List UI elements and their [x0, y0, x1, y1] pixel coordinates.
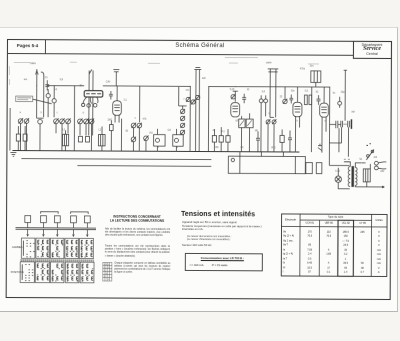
socket table r1c3 border — [50, 238, 64, 258]
transformer tap labels — [344, 159, 350, 162]
tube V3 envelope — [293, 102, 302, 116]
striped band ticks — [21, 259, 93, 262]
table header lines — [281, 220, 387, 227]
loop contact e2 — [272, 120, 276, 124]
consumption line 1 — [185, 256, 260, 260]
capacitor C4 — [109, 91, 113, 99]
junction dot 62.5,150.5 — [61, 150, 62, 151]
trimmer row b1 — [54, 119, 59, 124]
wire transformer top leads — [344, 162, 361, 168]
trimmer o4 — [144, 136, 149, 141]
capacitor C15 — [289, 94, 293, 103]
trimmer o1 — [131, 123, 136, 128]
wire V1 bottom — [111, 119, 121, 152]
resistor R13 — [304, 95, 307, 105]
chassis ground bus — [12, 151, 299, 153]
junction dot 312,85.4 — [311, 86, 312, 87]
note label box — [16, 96, 33, 101]
antenna earth lead — [41, 72, 44, 117]
wire power links — [355, 163, 384, 188]
coil L1 box — [62, 134, 68, 145]
mains switch contact 1 — [367, 155, 370, 158]
osc coil T2 slug — [174, 138, 178, 142]
tube outline box 4 — [71, 216, 77, 223]
capacitor C12 — [256, 131, 260, 152]
resistor R2 — [85, 136, 89, 142]
socket table r1c5 border — [79, 238, 93, 258]
trimmer row c3 — [89, 119, 94, 124]
tube V1 envelope — [113, 101, 122, 116]
dial lamp symbol — [318, 144, 322, 151]
trimmer IF in — [231, 95, 235, 99]
junction dot 235.6,85.4 — [235, 86, 236, 87]
junction dot 140,85.4 — [139, 86, 140, 87]
socket table r2c3 border — [50, 262, 64, 283]
detector diode pair d1 — [259, 99, 263, 103]
output transformer primary bars — [341, 121, 343, 128]
scan noise dashes top — [9, 56, 319, 86]
padder chain arrows — [181, 109, 185, 135]
osc coil T2 box — [173, 135, 183, 147]
socket table r1c1 border — [21, 238, 35, 258]
title cell divider pages — [44, 40, 46, 54]
loop antenna wire 1 — [269, 69, 271, 117]
trimmer under antenna — [38, 119, 43, 124]
trimmer row b2 — [60, 119, 65, 124]
socket table r1c3 codes — [52, 240, 63, 257]
instructions paragraph 3 — [114, 263, 170, 275]
wire loop drops — [268, 117, 274, 152]
socket table r2c2 border — [35, 262, 49, 283]
trimmer o3 — [131, 137, 136, 142]
table col3 values — [338, 230, 354, 276]
key table dots — [104, 264, 111, 279]
junction dot 270.4,85.4 — [270, 86, 271, 87]
wire output leads — [329, 70, 348, 157]
table header unites — [372, 218, 387, 221]
bus line B+ lower 1 — [21, 158, 211, 161]
padder P3 — [196, 95, 200, 99]
mains transformer core — [351, 166, 354, 187]
junction dot 92,150.5 — [91, 150, 92, 151]
instructions paragraph 1 — [105, 227, 170, 237]
HF rail wire — [209, 85, 330, 88]
socket table r2c4 border — [65, 262, 79, 283]
tube V4 anode lead — [323, 87, 325, 103]
table header type du tube — [300, 215, 371, 218]
socket table r2c4 codes — [67, 264, 78, 281]
wire det box drop — [311, 82, 315, 152]
wire AF lead — [284, 87, 286, 99]
table header electrode — [281, 218, 300, 221]
trimmer row c1 — [78, 119, 83, 124]
tube V4 grid dashes — [321, 107, 327, 113]
under-chassis tap rect 2 — [316, 163, 322, 174]
socket table r1c5 codes — [81, 240, 93, 257]
tube V2 anode lead — [233, 91, 238, 102]
outer frame — [6, 40, 391, 300]
socket table r2c1 codes — [22, 264, 33, 280]
department service box — [353, 41, 391, 58]
wire pot drop — [281, 129, 283, 151]
note box text lines — [17, 98, 31, 100]
mains switch arm — [366, 149, 374, 160]
coil L2 box — [98, 134, 105, 145]
mains switch contact 2 — [371, 150, 374, 153]
wire lamp leads — [338, 168, 350, 189]
tube V1 grid dashes — [114, 105, 120, 111]
junction dot 296,150.5 — [295, 151, 296, 152]
AM rod twin wire 1 — [88, 70, 90, 135]
key table border — [103, 263, 112, 282]
trimmer AF arrow — [283, 99, 287, 104]
cap C osc twin 2 — [198, 70, 200, 152]
resistor R7 — [226, 136, 230, 143]
det transformer inner — [314, 71, 317, 83]
table row labels — [283, 230, 294, 276]
padder chain c1 — [180, 109, 184, 113]
table units values — [371, 230, 386, 276]
wire chain stem — [182, 86, 190, 151]
trimmer row a2 — [24, 119, 29, 124]
trimmer arrows a — [19, 118, 30, 124]
instructions paragraph 2 — [105, 244, 170, 258]
socket bracket 1 — [41, 212, 59, 214]
under-chassis tap rect — [306, 163, 313, 174]
pilot lamp cross — [336, 177, 340, 181]
socket table r2c1 border — [20, 262, 34, 283]
tube V1 anode lead — [116, 86, 118, 101]
IF transformer arrow A — [240, 120, 244, 126]
under-chassis box — [228, 156, 305, 174]
tube V4 envelope — [320, 103, 329, 117]
resistor R5 — [212, 136, 216, 143]
table col1 values — [300, 230, 320, 276]
wire left vertical — [9, 108, 11, 150]
switch contact d2 — [87, 104, 91, 108]
tube V3 anode lead — [296, 87, 298, 102]
cap osc top bar — [194, 67, 201, 69]
padder chain c4 — [180, 130, 184, 134]
socket table r2c2 codes — [37, 264, 49, 280]
instructions title — [102, 214, 172, 223]
trimmer row c2 — [84, 119, 89, 124]
switch contact d1 — [82, 103, 85, 106]
osc coil T1 box — [154, 135, 165, 147]
wire IF drops — [241, 113, 249, 152]
capacitor C ant — [45, 80, 49, 90]
ground symbol left — [10, 153, 16, 157]
capacitor C18 — [330, 121, 341, 129]
tube outline box 1 — [25, 216, 31, 223]
junction dot 111.8,150.5 — [111, 150, 112, 151]
detector diode pair d2 — [264, 99, 268, 103]
padder P2 — [191, 100, 195, 104]
trimmer arrows o — [131, 123, 148, 142]
tensions line 2 — [182, 225, 262, 232]
antenna arrowhead — [35, 70, 38, 75]
loop contact arrows — [266, 119, 276, 124]
voltage selector dots — [366, 144, 371, 146]
grid rail wire — [103, 85, 190, 87]
resistor R3 — [110, 125, 114, 131]
wire drops under chassis — [240, 152, 296, 174]
coil L1 hatch — [64, 134, 66, 145]
junction dot 282.6,150.5 — [281, 151, 282, 152]
junction dot 190.6,150.5 — [189, 151, 190, 152]
wire trimmer leads left — [48, 86, 54, 118]
wire x330 drop — [328, 87, 330, 152]
loop antenna wire 2 — [275, 69, 277, 117]
antenna mast — [36, 69, 38, 118]
junction dot 190.6,85.4 — [190, 86, 191, 87]
tensions line 1 — [182, 220, 262, 224]
junction dot 158,150.5 — [157, 151, 158, 152]
padder chain c3 — [180, 123, 184, 127]
tube V4 cathode drop — [322, 117, 326, 152]
ballast resistor box — [363, 169, 370, 182]
tensions title — [181, 210, 255, 217]
tensions line secteur — [182, 243, 212, 247]
trimmer arrows b — [54, 118, 71, 124]
output transformer secondary bars — [348, 121, 350, 128]
junction dot 297.8,85.4 — [297, 86, 298, 87]
tube outline box 3 — [54, 216, 60, 223]
switch wafer curves — [83, 97, 98, 104]
wire res drops m — [214, 127, 228, 152]
table col4 values — [353, 230, 371, 276]
capacitor C17 — [316, 95, 320, 105]
socket table r1c1 codes — [23, 241, 34, 257]
loop tap bar — [268, 71, 277, 73]
junction dot 74.8,85.4 — [74, 85, 75, 86]
wire R0 drops — [18, 126, 25, 151]
tube V1 cathode leads — [115, 115, 119, 123]
bus arrows — [28, 229, 88, 236]
socket table r1c2 codes — [37, 240, 48, 257]
loop antenna top bar — [268, 68, 279, 70]
capacitor C10 — [242, 94, 246, 104]
tube V3 cathode drop — [295, 117, 299, 153]
IF transformer box B — [246, 119, 253, 128]
IF transformer arrow B — [247, 120, 251, 126]
rod arrow — [89, 69, 92, 74]
connection bus lower line — [16, 228, 96, 230]
resistor R0a — [16, 134, 20, 141]
speaker bracket — [350, 119, 352, 129]
resistor R14 — [309, 95, 312, 105]
trimmer row a1 — [18, 119, 23, 124]
key table grid — [103, 263, 112, 282]
junction dot 242,150.5 — [241, 151, 242, 152]
trimmer o2 — [137, 123, 142, 128]
resistor R0b — [23, 134, 27, 141]
trimmer CV1 — [46, 94, 50, 98]
mains transformer secondary winding — [355, 167, 357, 185]
tube V2 grid dashes — [232, 106, 238, 112]
striped header band row2 — [20, 259, 94, 262]
socket table r1c4 border — [65, 238, 79, 258]
IF transformer box A — [239, 119, 245, 128]
trimmer row b3 — [66, 119, 71, 124]
junction dot 177,150.5 — [176, 151, 177, 152]
socket stems — [28, 223, 88, 228]
trimmer IF arrow — [231, 94, 235, 99]
table column lines — [300, 214, 372, 277]
wire drops row bc — [56, 124, 92, 151]
bus line B+ lower 2 — [77, 165, 211, 168]
tube V2 envelope — [231, 103, 240, 117]
mains plug pin 1 — [374, 161, 378, 165]
loop contact e1 — [266, 120, 270, 124]
wire coil drops — [65, 126, 102, 151]
tensions parenthetical — [187, 235, 261, 242]
wire det leads — [261, 95, 266, 152]
leader wire to switch — [33, 99, 52, 104]
junction dot 330,85.4 — [329, 87, 330, 88]
junction dot 209,85.4 — [208, 86, 209, 87]
padder chain c2 — [180, 116, 184, 120]
mains transformer primary winding — [348, 167, 350, 187]
wire drops left row — [20, 118, 43, 151]
output transformer link dash — [343, 123, 347, 125]
padder P1 — [186, 97, 190, 101]
gammes label row2 — [11, 271, 24, 274]
capacitor C14 — [288, 130, 292, 152]
table col2 values — [319, 230, 338, 276]
osc coil T1 slug — [155, 138, 159, 142]
connection bus upper line — [16, 227, 96, 229]
wire x140 drop — [139, 86, 141, 122]
tube V3 grid dashes — [294, 107, 300, 113]
trimmer arrows c — [78, 118, 94, 124]
pilot lamp L1 — [335, 176, 341, 182]
page number label — [10, 43, 45, 48]
socket table r2c5 border — [80, 262, 94, 283]
wire osc drops — [157, 129, 176, 152]
band switch box S1 — [84, 91, 103, 97]
osc section box — [178, 86, 208, 151]
socket table r2c3 codes — [52, 264, 63, 281]
coupling choke circle — [338, 101, 342, 105]
bus arrowheads — [27, 234, 89, 237]
wire rail left — [46, 86, 84, 151]
mains plug pin 2 — [374, 166, 378, 170]
coil L2 hatch — [101, 134, 103, 145]
tube outline box 2 — [41, 216, 47, 223]
tube outline box 5 — [84, 216, 90, 223]
switch contact d3 — [93, 103, 97, 107]
ballast inner lines — [366, 169, 368, 182]
resistor R6 — [219, 136, 223, 143]
padder arrows — [186, 95, 200, 105]
heater rail wire — [329, 152, 349, 165]
junction dot 37,85.4 — [36, 85, 37, 86]
gammes label row1 — [12, 246, 23, 249]
junction dot 322.5,150.5 — [321, 152, 322, 153]
department box text — [353, 43, 391, 56]
consumption box — [184, 252, 262, 271]
band switch box text — [86, 93, 101, 95]
socket table r1c2 border — [36, 238, 50, 258]
volume pot R11 — [280, 135, 284, 142]
cap C osc twin 1 — [195, 69, 197, 151]
trimmer AF — [283, 99, 287, 103]
under-chassis trimmer — [231, 158, 234, 161]
sheet title — [120, 43, 280, 50]
junction dot 324.4,85.4 — [324, 87, 325, 88]
trimmer CV2 — [52, 99, 56, 103]
junction dot 117.4,85.4 — [117, 85, 118, 86]
table outer border — [281, 214, 387, 277]
socket table r1c4 codes — [66, 240, 77, 256]
det transformer box — [311, 71, 321, 83]
capacitor above V1 — [113, 70, 119, 86]
table tube names — [300, 222, 320, 225]
title strip bottom line — [7, 53, 353, 55]
junction dot 139.8,150.5 — [139, 151, 140, 152]
resistor R1 — [78, 136, 82, 142]
consumption line 2 — [190, 263, 256, 267]
AM rod twin wire 2 — [92, 70, 94, 135]
wire trimmer drops o — [133, 128, 146, 151]
socket table r2c5 codes — [82, 264, 93, 281]
UCL emphasis column box — [338, 220, 354, 276]
junction dot 268.5,150.5 — [267, 151, 268, 152]
junction dot 214.9,150.5 — [214, 151, 215, 152]
mains cord — [378, 162, 386, 169]
socket bracket 2 — [71, 212, 89, 214]
